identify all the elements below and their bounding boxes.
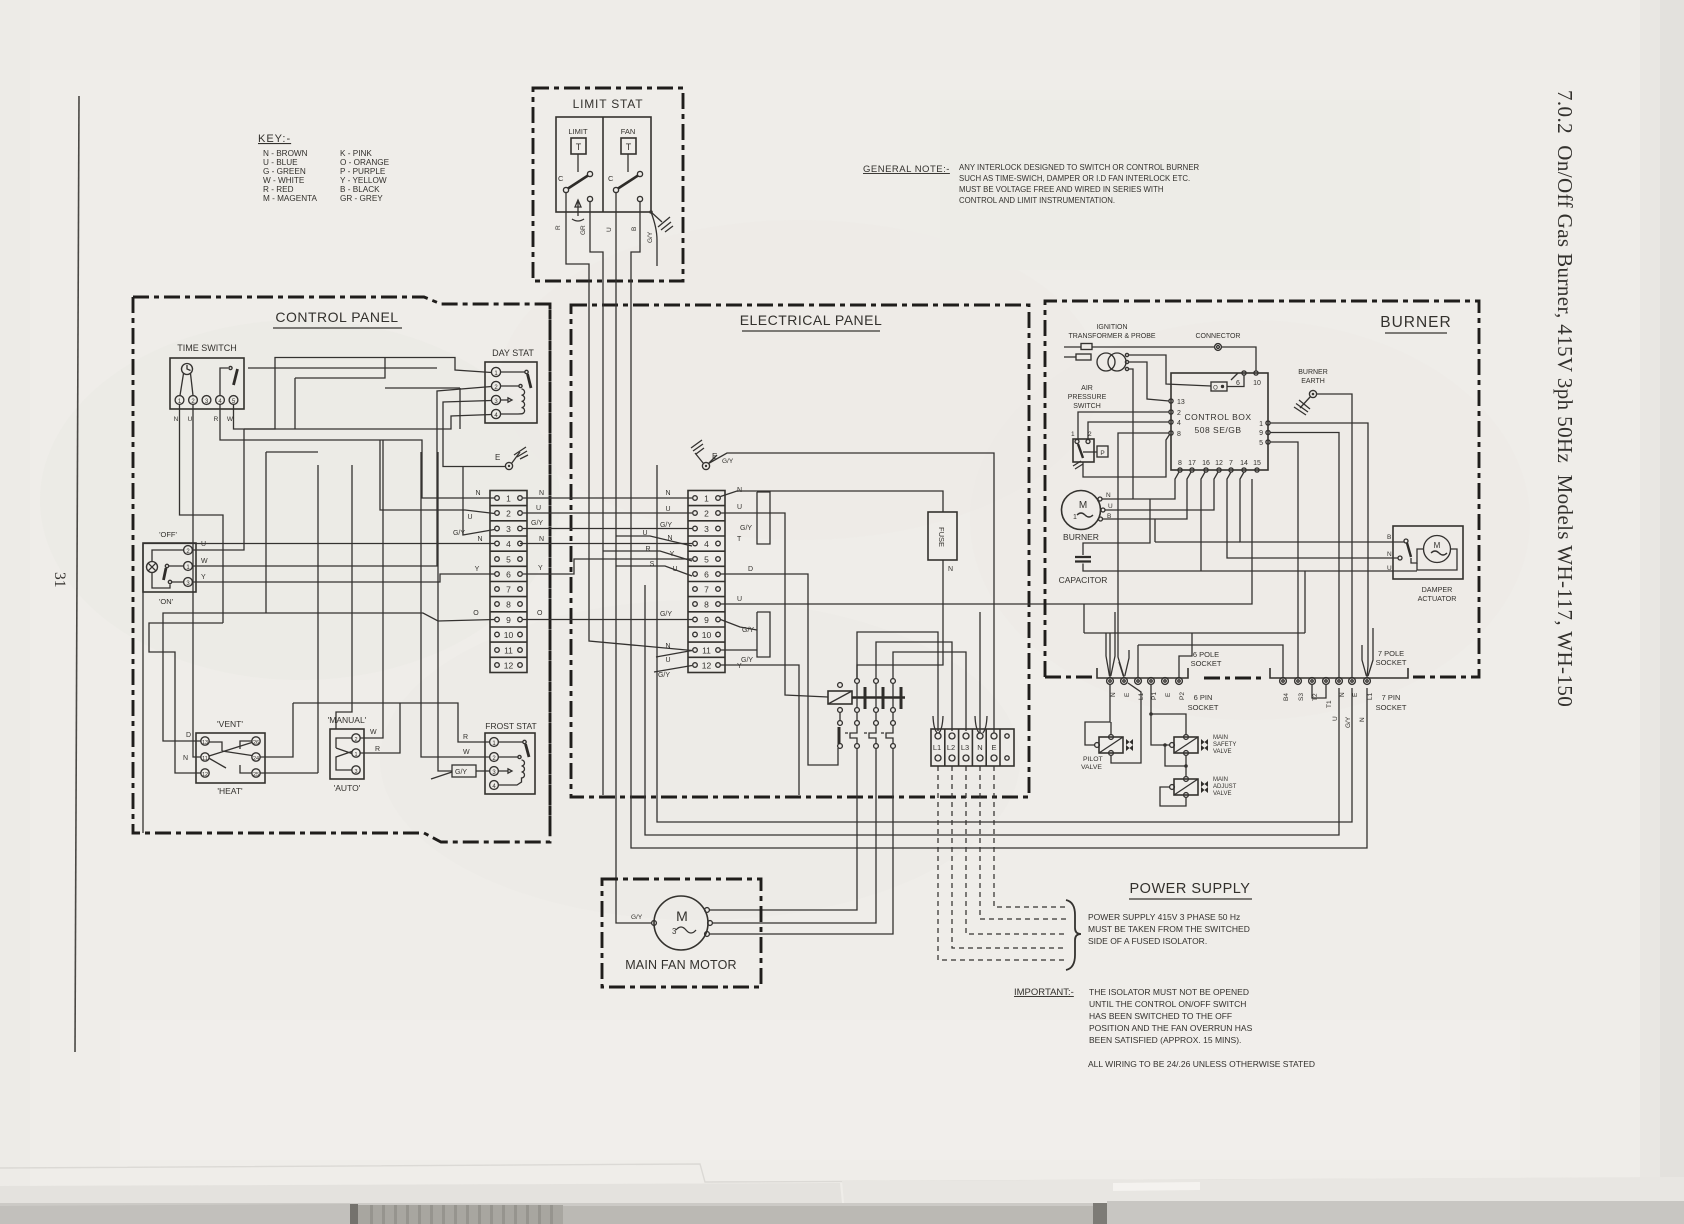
svg-text:SWITCH: SWITCH xyxy=(1073,403,1101,410)
limit stat inner case xyxy=(556,117,651,212)
svg-text:B4: B4 xyxy=(1283,693,1290,701)
svg-text:9: 9 xyxy=(506,615,511,625)
wire damper N xyxy=(1227,472,1398,558)
wire funnel L1 xyxy=(933,716,943,733)
thermostat T fan xyxy=(621,138,636,154)
wire W feed loop xyxy=(295,358,385,379)
svg-text:IMPORTANT:-: IMPORTANT:- xyxy=(1014,987,1074,998)
svg-text:N: N xyxy=(1110,692,1117,697)
wire transformer t2 to pin13 xyxy=(1129,362,1170,401)
svg-text:Y - YELLOW: Y - YELLOW xyxy=(340,176,387,185)
svg-text:2: 2 xyxy=(1177,410,1181,417)
actuator arrow xyxy=(572,200,584,221)
wire dashed L1 to isolator xyxy=(938,766,1066,960)
svg-text:6: 6 xyxy=(704,570,709,580)
svg-text:MAIN FAN MOTOR: MAIN FAN MOTOR xyxy=(625,958,737,972)
svg-text:E: E xyxy=(1352,692,1359,697)
wire pin1 to socket L1 xyxy=(1270,423,1368,677)
svg-text:T: T xyxy=(576,142,582,152)
wire safety to adjust xyxy=(1185,756,1187,777)
svg-text:G/Y: G/Y xyxy=(1345,716,1352,728)
svg-text:R: R xyxy=(463,734,468,741)
wire O: cp9 to vent 13 xyxy=(266,613,495,621)
svg-text:CONTROL BOX: CONTROL BOX xyxy=(1184,412,1251,422)
svg-text:N: N xyxy=(475,490,480,497)
svg-text:HAS BEEN SWITCHED TO THE OFF: HAS BEEN SWITCHED TO THE OFF xyxy=(1089,1011,1232,1021)
wire B xyxy=(631,202,640,281)
svg-text:M: M xyxy=(676,908,688,924)
wire N row1 gap xyxy=(523,497,692,499)
fuse F1 xyxy=(928,512,957,560)
svg-text:U: U xyxy=(467,514,472,521)
lamp xyxy=(147,562,158,573)
svg-text:15: 15 xyxy=(1253,460,1261,467)
wire W: TS5 to DAY STAT 1 xyxy=(234,358,492,430)
svg-text:N: N xyxy=(665,490,670,497)
wire vertical link xyxy=(459,388,461,429)
svg-text:IGNITION: IGNITION xyxy=(1096,324,1127,331)
svg-text:U: U xyxy=(536,505,541,512)
svg-text:W: W xyxy=(370,729,377,736)
svg-text:7 POLE: 7 POLE xyxy=(1378,649,1404,658)
electrical panel border xyxy=(571,305,1029,797)
pilot valve xyxy=(1099,737,1123,753)
wire dashed E to isolator xyxy=(994,766,1066,907)
svg-text:Y: Y xyxy=(737,663,742,670)
control box 508 SE/GB xyxy=(1171,373,1268,470)
capacitor xyxy=(1075,557,1091,562)
wire pin2 to aps1 xyxy=(1078,412,1169,440)
svg-text:ANY INTERLOCK DESIGNED TO SWIT: ANY INTERLOCK DESIGNED TO SWITCH OR CONT… xyxy=(959,163,1200,172)
damper actuator xyxy=(1393,526,1463,579)
svg-text:LIMIT STAT: LIMIT STAT xyxy=(573,97,644,111)
svg-text:SUCH AS TIME-SWICH, DAMPER OR: SUCH AS TIME-SWICH, DAMPER OR I.D FAN IN… xyxy=(959,174,1190,183)
wire earth G/Y run to block E xyxy=(709,453,995,733)
svg-text:12: 12 xyxy=(504,661,514,671)
wire block N riser xyxy=(979,612,981,733)
svg-text:1: 1 xyxy=(506,494,511,504)
svg-text:N: N xyxy=(539,536,544,543)
svg-text:N: N xyxy=(174,416,179,423)
svg-text:26: 26 xyxy=(253,740,259,746)
svg-text:2: 2 xyxy=(354,737,357,743)
svg-text:G/Y: G/Y xyxy=(455,769,467,776)
svg-text:9: 9 xyxy=(704,615,709,625)
wire N: vent 25 out xyxy=(260,772,318,774)
svg-text:N: N xyxy=(539,490,544,497)
wire Y row6-row5 jog xyxy=(523,559,692,574)
svg-text:13: 13 xyxy=(1177,399,1185,406)
svg-text:POSITION AND THE FAN OVERRUN H: POSITION AND THE FAN OVERRUN HAS xyxy=(1089,1023,1253,1033)
svg-text:G/Y: G/Y xyxy=(722,458,734,465)
svg-text:GR - GREY: GR - GREY xyxy=(340,194,383,203)
wire transformer t3 drop xyxy=(1129,369,1134,499)
svg-text:N: N xyxy=(1339,692,1346,697)
svg-text:TIME SWITCH: TIME SWITCH xyxy=(177,343,237,353)
svg-text:4: 4 xyxy=(1177,420,1181,427)
limit stat enclosure xyxy=(533,88,683,281)
svg-text:3: 3 xyxy=(704,524,709,534)
wire feeders top verticals xyxy=(420,452,422,592)
svg-text:G/Y: G/Y xyxy=(660,611,672,618)
svg-text:O: O xyxy=(537,610,543,617)
wire diag to row4 xyxy=(616,536,692,546)
svg-text:G/Y: G/Y xyxy=(740,525,752,532)
svg-text:O: O xyxy=(473,610,479,617)
page binding line xyxy=(75,96,79,1052)
svg-text:S: S xyxy=(650,561,655,568)
svg-text:M: M xyxy=(1079,500,1087,511)
svg-text:ACTUATOR: ACTUATOR xyxy=(1418,594,1457,603)
wire diag to row5 xyxy=(603,551,692,561)
svg-text:R: R xyxy=(375,746,380,753)
svg-text:T1: T1 xyxy=(1326,700,1333,708)
svg-text:R - RED: R - RED xyxy=(263,185,294,194)
svg-text:2: 2 xyxy=(704,509,709,519)
svg-text:N: N xyxy=(1359,717,1366,722)
svg-text:508 SE/GB: 508 SE/GB xyxy=(1194,425,1241,435)
svg-text:B: B xyxy=(1387,534,1391,541)
svg-text:B - BLACK: B - BLACK xyxy=(340,185,380,194)
svg-text:SOCKET: SOCKET xyxy=(1376,703,1407,712)
wire GR xyxy=(590,202,603,281)
svg-text:EARTH: EARTH xyxy=(1301,378,1325,385)
wire TS1 down-left xyxy=(180,405,224,624)
main fan motor enclosure xyxy=(602,879,761,987)
svg-text:W: W xyxy=(201,558,208,565)
wire P1 drop xyxy=(1150,685,1152,715)
ep terminal strip TS2 xyxy=(688,491,725,673)
junction at fan common xyxy=(649,210,653,214)
svg-text:P: P xyxy=(1100,450,1104,457)
svg-text:PRESSURE: PRESSURE xyxy=(1068,394,1107,401)
svg-text:'MANUAL': 'MANUAL' xyxy=(328,715,367,725)
svg-text:O - ORANGE: O - ORANGE xyxy=(340,158,390,167)
svg-text:FUSE: FUSE xyxy=(937,527,946,547)
wire G/Y xyxy=(651,212,657,266)
svg-text:3: 3 xyxy=(672,927,677,936)
svg-text:SOCKET: SOCKET xyxy=(1188,703,1219,712)
svg-text:G/Y: G/Y xyxy=(741,657,753,664)
svg-text:BURNER: BURNER xyxy=(1298,369,1328,376)
wire socket N feed xyxy=(1109,633,1111,677)
wire pole drops to fan motor xyxy=(710,749,858,911)
svg-text:'ON': 'ON' xyxy=(159,597,174,606)
svg-text:D: D xyxy=(186,732,191,739)
svg-text:'HEAT': 'HEAT' xyxy=(217,786,243,796)
wire row9 stub xyxy=(721,620,758,631)
svg-text:T: T xyxy=(626,142,632,152)
svg-text:U: U xyxy=(188,416,193,423)
svg-text:B: B xyxy=(631,227,638,231)
wire Y: off3 to cp6 xyxy=(193,574,495,582)
wire lower-left riser xyxy=(142,623,144,833)
svg-text:9: 9 xyxy=(1259,430,1263,437)
svg-text:CONTROL AND LIMIT INSTRUMENTAT: CONTROL AND LIMIT INSTRUMENTATION. xyxy=(959,196,1115,205)
svg-text:UNTIL THE CONTROL ON/OFF SWITC: UNTIL THE CONTROL ON/OFF SWITCH xyxy=(1089,999,1246,1009)
wire row11 stub xyxy=(721,649,758,651)
wire N bus row4 xyxy=(143,543,495,545)
wire R xyxy=(566,193,589,281)
wire pin4 to aps2 xyxy=(1088,422,1169,440)
svg-text:12: 12 xyxy=(202,772,208,778)
wire safety valve left xyxy=(1151,714,1170,745)
wire probe to connector xyxy=(1092,346,1215,348)
wire dashed N to isolator xyxy=(980,766,1066,919)
cp terminal strip TS1 xyxy=(490,491,527,673)
svg-text:FROST STAT: FROST STAT xyxy=(485,721,536,731)
svg-text:1: 1 xyxy=(1073,514,1077,521)
svg-text:W: W xyxy=(463,749,470,756)
svg-text:CAPACITOR: CAPACITOR xyxy=(1059,575,1108,585)
svg-text:DAMPER: DAMPER xyxy=(1422,585,1453,594)
svg-text:VALVE: VALVE xyxy=(1213,791,1231,797)
svg-text:S3: S3 xyxy=(1298,693,1305,701)
svg-text:G - GREEN: G - GREEN xyxy=(263,167,306,176)
wire contactor pole3 to block L3 xyxy=(893,652,966,731)
svg-text:C: C xyxy=(558,174,564,183)
svg-text:2: 2 xyxy=(506,509,511,519)
svg-text:5: 5 xyxy=(506,555,511,565)
wire safety valve top xyxy=(1151,714,1186,735)
wire U row2 gap xyxy=(523,512,692,514)
wire G/Y: earth to cp3 and day stat 3 xyxy=(443,401,506,467)
wire horizontal run upper xyxy=(248,367,437,369)
svg-text:N: N xyxy=(1387,551,1392,558)
wire G/Y: frost 3 xyxy=(438,592,452,771)
wire O row9 gap xyxy=(523,619,692,621)
wire loop rows 8-12 xyxy=(757,612,770,657)
wire pin5 to socket S3 xyxy=(1270,442,1298,677)
wire diag to row6 xyxy=(616,566,692,576)
svg-text:'VENT': 'VENT' xyxy=(217,719,243,729)
svg-text:N: N xyxy=(477,536,482,543)
svg-text:T2: T2 xyxy=(1312,693,1319,701)
brace xyxy=(1066,900,1081,970)
wire row1 to fuse xyxy=(721,491,944,512)
wire pilot valve bottom xyxy=(1111,683,1141,763)
svg-text:C: C xyxy=(608,174,614,183)
wire N row4 gap xyxy=(520,543,692,545)
svg-text:U: U xyxy=(606,227,613,232)
wire cross bus 633 xyxy=(1084,632,1305,634)
wire burner earth to socket E xyxy=(1317,394,1353,677)
svg-text:7: 7 xyxy=(506,585,511,595)
wire horizontal link xyxy=(385,387,460,389)
wire row12 left diag xyxy=(654,666,692,673)
svg-text:N: N xyxy=(948,566,953,573)
svg-text:10: 10 xyxy=(702,630,712,640)
scanned page bottom edge xyxy=(0,1164,1684,1182)
svg-text:7: 7 xyxy=(1229,460,1233,467)
svg-text:7 PIN: 7 PIN xyxy=(1382,693,1401,702)
wire W: frost 2 xyxy=(421,592,490,757)
svg-text:4: 4 xyxy=(704,539,709,549)
svg-text:5: 5 xyxy=(1259,440,1263,447)
svg-text:BURNER: BURNER xyxy=(1063,532,1099,542)
wire row6 D to coil aux xyxy=(721,574,839,765)
control panel border xyxy=(133,297,550,842)
svg-text:U: U xyxy=(737,504,742,511)
svg-text:R: R xyxy=(214,416,219,423)
key legend block xyxy=(258,133,390,203)
wire vertical feeder xyxy=(317,465,319,773)
wire pilot valve top feed xyxy=(1085,685,1110,746)
svg-text:G/Y: G/Y xyxy=(647,231,654,243)
svg-text:'OFF': 'OFF' xyxy=(159,530,177,539)
svg-text:16: 16 xyxy=(1202,460,1210,467)
mains terminal block xyxy=(931,729,1014,766)
svg-text:17: 17 xyxy=(1188,460,1196,467)
svg-text:U: U xyxy=(737,596,742,603)
wire TS4 run xyxy=(220,405,495,499)
burner panel border xyxy=(1045,301,1479,677)
svg-text:TRANSFORMER & PROBE: TRANSFORMER & PROBE xyxy=(1068,333,1155,340)
svg-text:N - BROWN: N - BROWN xyxy=(263,149,308,158)
wire U: cp2 feed xyxy=(380,440,495,514)
wire pin9 to socket N xyxy=(1270,433,1339,678)
svg-text:12: 12 xyxy=(702,661,712,671)
wire W: off1 to day stat 2 xyxy=(193,387,492,567)
svg-text:U: U xyxy=(665,657,670,664)
wire capacitor bottom to pin16 xyxy=(1083,564,1417,572)
svg-text:U - BLUE: U - BLUE xyxy=(263,158,298,167)
wire bus to socket N xyxy=(645,585,1339,835)
svg-text:7: 7 xyxy=(704,585,709,595)
wire drop chain lower left xyxy=(149,623,223,773)
svg-text:14: 14 xyxy=(1240,460,1248,467)
wire adjust valve left loop xyxy=(1160,787,1186,806)
wire contactor pole1 to block L1 xyxy=(857,632,938,731)
svg-text:THE ISOLATOR MUST NOT BE OPENE: THE ISOLATOR MUST NOT BE OPENED xyxy=(1089,987,1249,997)
svg-text:KEY:-: KEY:- xyxy=(258,133,291,145)
wire transformer t1 to aux box xyxy=(1129,355,1212,386)
wire row8 long run xyxy=(721,479,1253,604)
wire feeder top pair xyxy=(266,451,318,453)
svg-text:3: 3 xyxy=(354,769,357,775)
svg-text:12: 12 xyxy=(1215,460,1223,467)
svg-text:T: T xyxy=(737,536,742,543)
svg-text:MAIN: MAIN xyxy=(1213,735,1228,741)
svg-text:DAY STAT: DAY STAT xyxy=(492,348,534,358)
wire limit stat GR drop xyxy=(602,281,604,795)
wire row2 U to coil xyxy=(721,513,829,697)
svg-text:8: 8 xyxy=(506,600,511,610)
svg-text:P - PURPLE: P - PURPLE xyxy=(340,167,386,176)
svg-text:'AUTO': 'AUTO' xyxy=(334,783,361,793)
svg-text:SOCKET: SOCKET xyxy=(1191,659,1222,668)
svg-text:E: E xyxy=(1165,692,1172,697)
wire W: manual 2 riser xyxy=(360,440,383,738)
main safety valve xyxy=(1174,737,1198,753)
wire funnel N xyxy=(975,716,987,733)
svg-text:6: 6 xyxy=(506,570,511,580)
wire bus to socket E xyxy=(657,465,1352,822)
svg-text:LIMIT: LIMIT xyxy=(568,127,588,136)
svg-text:G/Y: G/Y xyxy=(658,672,670,679)
main adjust valve xyxy=(1174,779,1198,795)
wire R bus xyxy=(293,703,490,742)
svg-text:MAIN: MAIN xyxy=(1213,777,1228,783)
svg-text:CONNECTOR: CONNECTOR xyxy=(1196,333,1241,340)
svg-text:PILOT: PILOT xyxy=(1083,756,1103,763)
svg-text:MUST BE VOLTAGE FREE AND WIRED: MUST BE VOLTAGE FREE AND WIRED IN SERIES… xyxy=(959,185,1163,194)
svg-text:10: 10 xyxy=(504,630,514,640)
svg-text:M: M xyxy=(1434,541,1441,550)
svg-text:CONTROL PANEL: CONTROL PANEL xyxy=(275,309,398,325)
wire pin8 left drop xyxy=(1118,433,1169,677)
wire socket funnels xyxy=(1106,612,1129,676)
svg-text:3: 3 xyxy=(506,524,511,534)
svg-text:N: N xyxy=(977,743,982,752)
fan motor xyxy=(654,896,708,950)
wire loop rows 1-4 xyxy=(757,492,770,544)
T2-T1 bridge xyxy=(1312,685,1326,698)
contactor K1 coil xyxy=(828,691,852,704)
svg-text:POWER SUPPLY: POWER SUPPLY xyxy=(1130,881,1251,897)
wire damper B xyxy=(1240,472,1404,542)
svg-text:1: 1 xyxy=(354,752,357,758)
wire vertical feeder xyxy=(265,452,267,613)
wire contactor pole2 to block L2 xyxy=(876,642,952,731)
wire R: manual 1 xyxy=(360,703,400,753)
svg-text:U: U xyxy=(1332,716,1339,721)
wire dashed L3 to isolator xyxy=(966,766,1066,934)
svg-text:SOCKET: SOCKET xyxy=(1376,658,1407,667)
svg-text:N: N xyxy=(183,755,188,762)
svg-text:E: E xyxy=(1124,692,1131,697)
wire fuse N to contactor xyxy=(857,560,943,679)
wire aps bottom run xyxy=(1083,435,1170,478)
svg-text:SIDE OF A FUSED ISOLATOR.: SIDE OF A FUSED ISOLATOR. xyxy=(1088,936,1207,946)
svg-text:4: 4 xyxy=(506,539,511,549)
svg-text:L2: L2 xyxy=(947,743,955,752)
thermostat T limit xyxy=(571,138,586,154)
wire damper U riser xyxy=(1304,571,1306,633)
svg-text:P2: P2 xyxy=(1179,692,1186,700)
svg-text:VALVE: VALVE xyxy=(1081,764,1102,771)
svg-text:U: U xyxy=(665,506,670,513)
svg-text:8: 8 xyxy=(704,600,709,610)
svg-text:6 POLE: 6 POLE xyxy=(1193,650,1219,659)
svg-text:ALL WIRING TO BE 24/.26 UNLESS: ALL WIRING TO BE 24/.26 UNLESS OTHERWISE… xyxy=(1088,1059,1315,1069)
wire U xyxy=(615,193,617,281)
svg-text:MUST BE TAKEN FROM THE SWITCHE: MUST BE TAKEN FROM THE SWITCHED xyxy=(1088,924,1250,934)
svg-text:10: 10 xyxy=(1253,380,1261,387)
svg-text:VALVE: VALVE xyxy=(1213,749,1231,755)
svg-text:L3: L3 xyxy=(961,743,969,752)
svg-text:R: R xyxy=(555,225,562,230)
wire row12 drop xyxy=(721,665,800,795)
svg-text:L1: L1 xyxy=(1367,692,1374,700)
svg-text:AIR: AIR xyxy=(1081,385,1093,392)
svg-text:7.0.2 On/Off Gas Burner, 415V: 7.0.2 On/Off Gas Burner, 415V 3ph 50Hz M… xyxy=(1553,90,1577,707)
wire socket P2 feed xyxy=(1179,633,1192,677)
svg-text:ADJUST: ADJUST xyxy=(1213,784,1237,790)
wire limit stat U drop to fan motor G/Y xyxy=(616,281,652,923)
svg-text:5: 5 xyxy=(704,555,709,565)
svg-text:13: 13 xyxy=(202,740,208,746)
svg-text:8: 8 xyxy=(1178,460,1182,467)
svg-text:11: 11 xyxy=(702,646,711,656)
wire limit stat R drop xyxy=(589,281,692,651)
svg-text:D: D xyxy=(748,566,753,573)
wire dashed L2 to isolator xyxy=(952,766,1066,948)
svg-text:SAFETY: SAFETY xyxy=(1213,742,1236,748)
svg-text:L1: L1 xyxy=(933,743,941,752)
svg-text:G/Y: G/Y xyxy=(531,520,543,527)
svg-text:BEEN SATISFIED (APPROX. 15 MIN: BEEN SATISFIED (APPROX. 15 MINS). xyxy=(1089,1035,1241,1045)
